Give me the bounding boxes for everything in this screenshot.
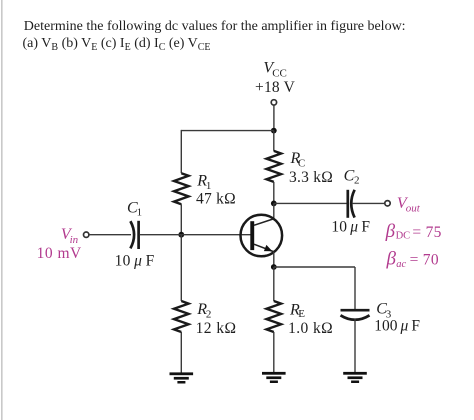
svg-text:100 μ F: 100 μ F [374, 318, 420, 335]
svg-text:12 kΩ: 12 kΩ [196, 320, 237, 337]
wire RE to ground [273, 332, 275, 372]
svg-text:+18 V: +18 V [255, 79, 296, 96]
wire C2 to Vout [352, 202, 385, 204]
wire emitter to emitter node [273, 252, 275, 267]
wire R2 to ground [180, 332, 182, 373]
svg-text:DC: DC [396, 230, 411, 241]
wire collector node to C2 [274, 202, 347, 204]
svg-text:10 mV: 10 mV [37, 245, 82, 262]
svg-text:3.3 kΩ: 3.3 kΩ [289, 169, 333, 186]
wire C1 to base node [140, 234, 182, 236]
scan edge artifact left [1, 0, 3, 420]
svg-text:β: β [385, 221, 396, 242]
capacitor C3 [341, 310, 370, 320]
node emitter junction [271, 264, 277, 270]
transistor Q1 [240, 215, 282, 257]
ground left [170, 372, 194, 383]
wire top rail [181, 130, 273, 132]
svg-text:10 μ F: 10 μ F [115, 252, 155, 269]
svg-text:CC: CC [272, 68, 287, 80]
svg-text:= 75: = 75 [412, 224, 441, 241]
resistor R1 [174, 173, 189, 204]
wire RC to collector node [273, 182, 275, 204]
capacitor C1 [130, 221, 138, 249]
svg-text:47 kΩ: 47 kΩ [196, 190, 236, 207]
svg-text:1: 1 [137, 206, 143, 218]
svg-text:10 μ F: 10 μ F [331, 219, 370, 236]
node collector junction [271, 201, 277, 207]
wire emitter node to C3 [274, 266, 355, 268]
ground right [343, 372, 367, 383]
wire Vin to C1 [89, 234, 131, 236]
terminal Vcc [271, 100, 276, 105]
svg-text:1.0 kΩ: 1.0 kΩ [288, 320, 333, 337]
wire R1 to base node [180, 204, 182, 235]
svg-text:(a) VB (b) VE (c) IE (d) IC (e: (a) VB (b) VE (c) IE (d) IC (e) VCE [23, 36, 211, 53]
svg-text:out: out [406, 203, 421, 215]
svg-text:2: 2 [206, 308, 212, 320]
ground middle [262, 372, 286, 383]
node Vcc rail junction [271, 128, 277, 134]
terminal Vin [84, 232, 89, 237]
svg-text:C: C [344, 167, 355, 184]
svg-text:β: β [386, 248, 397, 269]
wire RC top stem [273, 131, 275, 151]
resistor R2 [174, 301, 189, 332]
svg-text:Determine the following dc val: Determine the following dc values for th… [24, 19, 406, 34]
wire C3 top stem [354, 267, 356, 310]
svg-text:= 70: = 70 [410, 251, 439, 268]
resistor RC [267, 151, 282, 182]
svg-text:C: C [298, 157, 305, 169]
wire C3 to ground [354, 319, 356, 372]
svg-text:2: 2 [354, 174, 360, 186]
svg-text:E: E [298, 308, 305, 320]
resistor RE [267, 301, 282, 332]
capacitor C2 [348, 190, 355, 218]
wire base lead [181, 234, 250, 236]
terminal Vout [385, 201, 390, 206]
wire collector node to transistor [273, 203, 275, 219]
wire R1 top stem [180, 130, 182, 173]
wire Vcc stem [273, 105, 275, 130]
node base junction [178, 232, 184, 238]
svg-text:ac: ac [396, 259, 406, 270]
wire base node to R2 [180, 235, 182, 301]
wire emitter node to RE [273, 267, 275, 301]
